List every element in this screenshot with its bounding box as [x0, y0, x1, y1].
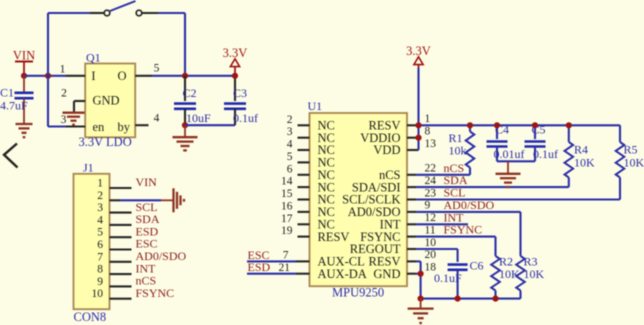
svg-text:0.1uf: 0.1uf	[233, 111, 258, 125]
svg-text:4: 4	[154, 113, 160, 125]
U1 pin 18 GND wire	[407, 273, 416, 275]
node C6 bottom	[455, 296, 461, 302]
svg-text:R5: R5	[624, 143, 638, 157]
wire bottom ground rail	[421, 298, 521, 300]
wire J1 pin2 to ground	[120, 199, 161, 201]
resistor R2 10K	[491, 237, 520, 299]
svg-text:AUX-DA: AUX-DA	[318, 267, 367, 281]
wire 3.3V top rail	[416, 124, 620, 126]
capacitor C3 0.1uf	[224, 76, 258, 125]
J1 pin 2	[110, 199, 121, 201]
svg-text:10K: 10K	[624, 156, 644, 170]
node 3.3V rail junction	[232, 73, 238, 79]
wire Q1 output rail	[152, 75, 235, 77]
svg-text:7: 7	[97, 251, 103, 263]
Q1 pin 2	[74, 100, 85, 102]
svg-text:O: O	[117, 69, 126, 83]
svg-text:J1: J1	[83, 161, 94, 175]
svg-text:FSYNC: FSYNC	[136, 286, 175, 300]
node C5 top	[532, 122, 538, 128]
svg-text:20: 20	[425, 249, 437, 261]
svg-text:RESV: RESV	[318, 230, 350, 244]
U1 pin 24 SDA wire	[407, 186, 416, 188]
wire switch top right	[158, 12, 185, 14]
U1 pin 16	[298, 211, 310, 213]
svg-text:10K: 10K	[574, 156, 595, 170]
power port VIN	[13, 49, 35, 76]
U1 pin 7	[296, 260, 310, 262]
Q1 pin 1	[66, 75, 85, 77]
U1 pin 20 wire	[407, 260, 416, 262]
svg-text:21: 21	[279, 262, 291, 274]
node C2 top junction	[182, 73, 188, 79]
U1 pin 12 INT wire	[407, 223, 416, 225]
svg-text:2: 2	[287, 114, 293, 126]
J1 pin 1	[110, 187, 132, 189]
svg-text:8: 8	[97, 264, 103, 276]
J1 pin 7	[110, 261, 132, 263]
J1 pin 10	[110, 298, 132, 300]
U1 pin 9 AD0/SDO wire	[407, 211, 416, 213]
wire en to VIN vertical	[47, 76, 49, 127]
Q1 pin 5	[135, 75, 152, 77]
IC U1 MPU9250	[310, 113, 408, 286]
J1 pin 5	[110, 236, 132, 238]
svg-text:3: 3	[61, 114, 67, 126]
resistor R1 10k	[449, 125, 475, 175]
svg-text:I: I	[91, 69, 95, 83]
node switch-left junction	[45, 73, 51, 79]
svg-text:16: 16	[281, 200, 293, 212]
svg-text:0.01uf: 0.01uf	[494, 147, 525, 161]
svg-text:7: 7	[283, 250, 289, 262]
J1 pin 4	[110, 224, 132, 226]
svg-text:1: 1	[425, 113, 431, 125]
svg-text:24: 24	[425, 175, 437, 187]
node rail left	[418, 296, 424, 302]
capacitor C4 0.01uf	[487, 123, 525, 162]
connector J1 CON8	[74, 174, 110, 309]
svg-text:0.1uF: 0.1uF	[434, 271, 462, 285]
svg-text:Q1: Q1	[86, 51, 101, 65]
switch S1	[90, 1, 158, 16]
svg-text:1: 1	[60, 64, 66, 76]
svg-text:2: 2	[61, 88, 67, 100]
svg-text:5: 5	[287, 151, 293, 163]
resistor R3 10K	[516, 212, 544, 299]
resistor R4 10K	[565, 125, 596, 187]
wire switch left vertical	[47, 13, 49, 76]
svg-text:4.7uF: 4.7uF	[0, 99, 28, 113]
power port 3.3V (right)	[406, 44, 431, 70]
svg-text:13: 13	[425, 138, 437, 150]
svg-text:4: 4	[287, 139, 293, 151]
ground under C4/C5	[496, 161, 521, 187]
svg-text:C3: C3	[233, 86, 247, 100]
svg-text:C1: C1	[0, 86, 14, 100]
Q1 pin 3	[66, 125, 85, 127]
U1 pin 13	[407, 149, 419, 151]
U1 pin 15	[298, 198, 310, 200]
U1 pin 10 REGOUT wire	[407, 248, 416, 250]
J1 pin 9	[110, 285, 132, 287]
svg-text:R4: R4	[574, 143, 588, 157]
svg-text:ESD: ESD	[248, 260, 271, 274]
ground at Q1 pin 2	[63, 112, 85, 114]
node 3.3V/pin8	[415, 135, 421, 141]
svg-text:CON8: CON8	[74, 310, 107, 324]
capacitor C2 10uF	[174, 76, 211, 125]
svg-text:3: 3	[97, 202, 103, 214]
svg-text:14: 14	[281, 176, 293, 188]
wire ESC net	[247, 260, 296, 262]
node R4 top	[566, 122, 572, 128]
svg-text:C6: C6	[470, 259, 484, 273]
svg-text:VIN: VIN	[13, 49, 35, 63]
svg-text:9: 9	[97, 276, 103, 288]
capacitor C6 0.1uF	[434, 249, 484, 299]
svg-text:10K: 10K	[524, 267, 545, 281]
node VIN junction	[21, 73, 27, 79]
svg-text:22: 22	[425, 163, 437, 175]
svg-text:4: 4	[97, 214, 103, 226]
ground under C1	[16, 123, 33, 125]
svg-text:23: 23	[425, 187, 437, 199]
wire switch top left	[48, 12, 90, 14]
capacitor C5 0.1uf	[525, 123, 559, 162]
svg-text:12: 12	[425, 212, 437, 224]
J1 pin 8	[110, 273, 132, 275]
capacitor C1 4.7uF	[0, 76, 34, 124]
off-sheet chevron	[4, 144, 18, 168]
resistor R5 10K	[616, 125, 644, 199]
U1 pin 22 nCS wire	[407, 174, 416, 176]
svg-text:6: 6	[287, 163, 293, 175]
wire C4-C5 bottom	[497, 160, 535, 162]
J1 pin 3	[110, 212, 132, 214]
svg-text:10: 10	[92, 288, 104, 300]
wire switch right vertical	[184, 13, 186, 76]
U1 pin 8	[407, 137, 419, 139]
svg-text:C2: C2	[183, 86, 197, 100]
svg-text:en: en	[93, 120, 106, 134]
wire C2-C3 bottom	[185, 124, 235, 126]
U1 pin 23 SCL wire	[407, 198, 416, 200]
U1 pin 21	[296, 273, 310, 275]
svg-text:9: 9	[425, 200, 431, 212]
U1 pin 4	[298, 149, 310, 151]
svg-text:U1: U1	[308, 99, 323, 113]
ground under C2	[173, 125, 198, 150]
power port 3.3V (left)	[223, 46, 248, 76]
U1 pin 14	[298, 186, 310, 188]
svg-text:3: 3	[287, 126, 293, 138]
U1 pin 19	[298, 236, 310, 238]
svg-text:10uF: 10uF	[186, 111, 211, 125]
wire 3.3V vertical to pins 1/8/13	[417, 68, 419, 150]
svg-text:0.1uf: 0.1uf	[533, 147, 558, 161]
ground main (bottom right)	[408, 299, 434, 323]
svg-text:1: 1	[97, 178, 103, 190]
Q1 pin 4	[135, 124, 148, 126]
svg-text:GND: GND	[93, 93, 120, 107]
node R2 bottom	[492, 296, 498, 302]
svg-text:10K: 10K	[499, 267, 520, 281]
svg-text:6: 6	[97, 239, 103, 251]
node C2 bottom junction	[182, 122, 188, 128]
U1 pin 1	[407, 124, 416, 126]
U1 pin 11 FSYNC wire	[407, 236, 416, 238]
wire pins 20/18 to ground rail	[420, 261, 422, 298]
svg-text:MPU9250: MPU9250	[332, 285, 384, 299]
svg-text:by: by	[118, 120, 131, 134]
U1 pin 3	[298, 137, 310, 139]
J1 pin 6	[110, 248, 132, 250]
svg-text:10: 10	[425, 237, 437, 249]
ground at J1 pin 2 (rotated)	[161, 188, 184, 212]
svg-text:15: 15	[281, 188, 293, 200]
U1 pin 17	[298, 223, 310, 225]
svg-text:VIN: VIN	[136, 175, 158, 189]
svg-text:5: 5	[97, 227, 103, 239]
svg-text:10k: 10k	[449, 144, 467, 158]
svg-text:8: 8	[425, 126, 431, 138]
svg-text:VDD: VDD	[373, 143, 400, 157]
U1 pin 5	[298, 161, 310, 163]
node 3.3V/pin1	[415, 122, 421, 128]
U1 pin 6	[298, 174, 310, 176]
svg-text:3.3V LDO: 3.3V LDO	[79, 135, 132, 149]
svg-text:5: 5	[154, 63, 160, 75]
svg-text:11: 11	[425, 224, 436, 236]
svg-text:GND: GND	[373, 267, 400, 281]
wire ESD net	[247, 273, 296, 275]
regulator U Q1 3.3V LDO	[85, 64, 135, 138]
node R1 top	[467, 122, 473, 128]
node pin18 junction	[418, 271, 424, 277]
node C4 top	[494, 122, 500, 128]
svg-text:19: 19	[281, 225, 293, 237]
wire VIN rail	[24, 75, 66, 77]
svg-text:2: 2	[97, 190, 103, 202]
U1 pin 2	[298, 124, 310, 126]
svg-text:17: 17	[281, 213, 293, 225]
